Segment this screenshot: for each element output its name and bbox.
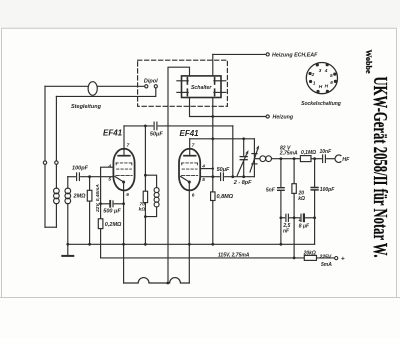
- svg-text:0,2MΩ: 0,2MΩ: [105, 222, 122, 228]
- svg-text:Dipol: Dipol: [144, 78, 158, 84]
- svg-text:6: 6: [330, 80, 333, 86]
- svg-text:5mA: 5mA: [321, 262, 332, 268]
- svg-text:2,75mA: 2,75mA: [279, 151, 298, 157]
- svg-text:100pF: 100pF: [72, 166, 89, 172]
- svg-text:4: 4: [201, 164, 205, 170]
- svg-text:0,8MΩ: 0,8MΩ: [217, 194, 234, 200]
- svg-text:50μF: 50μF: [217, 167, 230, 173]
- svg-text:7: 7: [192, 143, 195, 149]
- svg-text:115V, 2,75mA: 115V, 2,75mA: [218, 252, 250, 258]
- svg-text:7: 7: [127, 142, 130, 148]
- svg-text:2MΩ: 2MΩ: [73, 193, 87, 199]
- svg-text:EF41: EF41: [103, 129, 123, 138]
- svg-text:20kΩ: 20kΩ: [303, 251, 316, 257]
- svg-text:5: 5: [202, 177, 205, 183]
- svg-text:8 μF: 8 μF: [299, 224, 310, 230]
- svg-text:22V, 0,46mA: 22V, 0,46mA: [95, 184, 101, 213]
- svg-text:4: 4: [324, 68, 328, 74]
- svg-text:Wobbe: Wobbe: [364, 50, 373, 74]
- svg-text:H: H: [319, 84, 323, 90]
- svg-text:5: 5: [108, 177, 111, 183]
- svg-text:kΩ: kΩ: [139, 207, 146, 213]
- svg-text:5: 5: [330, 73, 333, 79]
- svg-text:500 μF: 500 μF: [103, 208, 121, 214]
- svg-text:Heizung: Heizung: [273, 115, 294, 121]
- svg-text:nF: nF: [283, 228, 290, 234]
- svg-text:Sockelschaltung: Sockelschaltung: [301, 101, 341, 107]
- svg-text:+: +: [341, 256, 345, 263]
- svg-text:100pF: 100pF: [320, 187, 335, 193]
- svg-text:Stegleitung: Stegleitung: [71, 104, 102, 110]
- svg-text:Schalter: Schalter: [191, 85, 212, 91]
- svg-text:225V: 225V: [319, 255, 332, 261]
- svg-text:10nF: 10nF: [320, 149, 333, 155]
- svg-text:6: 6: [192, 193, 195, 199]
- svg-text:5nF: 5nF: [266, 187, 276, 193]
- svg-text:6: 6: [126, 192, 129, 198]
- svg-text:1: 1: [313, 81, 316, 87]
- svg-text:HF: HF: [342, 157, 350, 163]
- svg-text:0,1MΩ: 0,1MΩ: [301, 150, 316, 156]
- svg-text:2 - 8pF: 2 - 8pF: [233, 180, 252, 186]
- svg-text:EF41: EF41: [180, 129, 200, 138]
- svg-text:2: 2: [311, 72, 315, 78]
- svg-text:kΩ: kΩ: [298, 196, 305, 202]
- svg-text:H: H: [325, 84, 329, 90]
- svg-text:50μF: 50μF: [150, 131, 163, 137]
- svg-text:3: 3: [319, 68, 322, 74]
- svg-text:4: 4: [107, 163, 111, 169]
- svg-text:Heizung ECH,EAF: Heizung ECH,EAF: [272, 52, 318, 58]
- svg-text:UKW-Gerät 2058/II für Notar W.: UKW-Gerät 2058/II für Notar W.: [369, 77, 391, 258]
